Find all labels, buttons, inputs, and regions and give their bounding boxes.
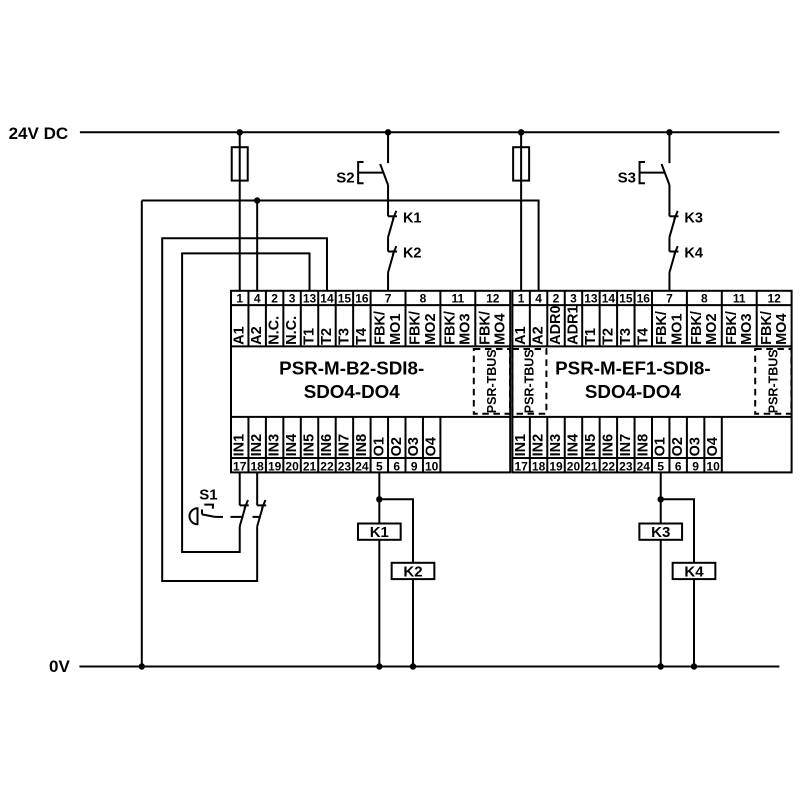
svg-text:17: 17 <box>514 459 528 473</box>
wire 0V power rail <box>79 666 779 668</box>
svg-text:ADR1: ADR1 <box>565 305 581 344</box>
wire 24V DC power rail <box>80 131 780 133</box>
wire 24V rail to U2 terminal 1 (A1) through fuse F2 <box>520 132 522 290</box>
wire 24V rail to switch S2 <box>387 132 389 163</box>
U2 top terminal cell separators <box>530 291 757 347</box>
svg-text:14: 14 <box>602 292 616 306</box>
svg-text:IN8: IN8 <box>354 434 370 457</box>
svg-text:IN1: IN1 <box>513 434 529 457</box>
svg-text:T2: T2 <box>600 328 616 345</box>
svg-text:ADR0: ADR0 <box>548 305 564 344</box>
svg-text:SDO4-DO4: SDO4-DO4 <box>585 381 682 402</box>
svg-text:FBK/: FBK/ <box>408 311 424 345</box>
svg-text:IN7: IN7 <box>336 434 352 457</box>
svg-text:A1: A1 <box>232 326 248 345</box>
fuse F2 <box>513 147 529 180</box>
svg-text:8: 8 <box>701 292 708 306</box>
svg-text:24: 24 <box>637 459 651 473</box>
U2 PSR-TBUS connector (left) <box>512 349 546 414</box>
svg-text:16: 16 <box>637 292 651 306</box>
svg-text:T2: T2 <box>319 328 335 345</box>
svg-text:K2: K2 <box>403 563 422 580</box>
pushbutton S3 (start) <box>618 162 670 187</box>
svg-text:O2: O2 <box>389 437 405 456</box>
U2 bottom terminal cell separators <box>530 417 722 473</box>
svg-text:MO4: MO4 <box>493 313 509 344</box>
svg-text:13: 13 <box>303 292 317 306</box>
wire 24V rail to switch S3 <box>668 132 670 163</box>
svg-text:K2: K2 <box>403 246 422 262</box>
wire S1 contact 2 to U1 terminal 14 (T2) <box>162 238 327 581</box>
wire coil K2 to 0V rail <box>412 579 414 666</box>
wire node-A horizontal run to module U2 terminal 4 (A2) <box>142 201 539 291</box>
svg-text:PSR-M-B2-SDI8-: PSR-M-B2-SDI8- <box>279 358 424 379</box>
svg-text:9: 9 <box>411 459 418 473</box>
svg-text:1: 1 <box>518 292 525 306</box>
svg-text:10: 10 <box>425 459 439 473</box>
junction 24V rail / S3 <box>666 129 672 135</box>
relay coil K1 <box>358 524 401 542</box>
wire S3 to contact K3 <box>668 185 670 216</box>
svg-text:IN3: IN3 <box>548 434 564 457</box>
svg-text:12: 12 <box>486 292 500 306</box>
U2 terminal label FBK/MO2 <box>689 311 720 345</box>
svg-text:O1: O1 <box>371 437 387 456</box>
svg-text:8: 8 <box>420 292 427 306</box>
svg-text:IN3: IN3 <box>267 434 283 457</box>
svg-text:FBK/: FBK/ <box>654 311 670 345</box>
svg-text:O2: O2 <box>670 437 686 456</box>
svg-text:3: 3 <box>570 292 577 306</box>
mechanical link S1 (dashed) <box>215 516 259 518</box>
U2 terminal label FBK/MO1 <box>654 311 685 345</box>
svg-text:4: 4 <box>535 292 542 306</box>
svg-text:0V: 0V <box>49 657 70 676</box>
svg-text:MO2: MO2 <box>704 313 720 344</box>
junction 0V rail / left drop <box>139 663 145 669</box>
svg-text:T3: T3 <box>336 328 352 345</box>
svg-text:7: 7 <box>385 292 392 306</box>
svg-text:20: 20 <box>285 459 299 473</box>
junction 24V rail / F1 <box>237 129 243 135</box>
svg-text:5: 5 <box>376 459 383 473</box>
junction K1/K2 branch <box>376 496 382 502</box>
U2 terminal label FBK/MO3 <box>724 311 755 345</box>
fuse F1 <box>232 147 248 180</box>
svg-text:K4: K4 <box>684 563 704 580</box>
svg-text:IN4: IN4 <box>565 434 581 457</box>
svg-text:18: 18 <box>250 459 264 473</box>
wire U1 terminal 18 (IN2) to S1 contact 2 <box>256 472 258 505</box>
svg-text:3: 3 <box>289 292 296 306</box>
svg-text:15: 15 <box>619 292 633 306</box>
wire S2 to contact K1 <box>387 185 389 216</box>
U2 type designation PSR-M-EF1-SDI8- SDO4-DO4 <box>555 358 710 402</box>
svg-text:T3: T3 <box>618 328 634 345</box>
svg-text:N.C.: N.C. <box>284 316 300 345</box>
wire contact K3 to contact K4 <box>668 237 670 251</box>
svg-text:5: 5 <box>657 459 664 473</box>
svg-text:MO3: MO3 <box>458 313 474 344</box>
wire coil K4 to 0V rail <box>693 579 695 666</box>
U1 terminal label FBK/MO1 <box>373 311 404 345</box>
svg-text:24: 24 <box>355 459 369 473</box>
svg-text:11: 11 <box>452 292 465 306</box>
svg-text:FBK/: FBK/ <box>477 311 493 345</box>
svg-text:S1: S1 <box>199 486 217 503</box>
svg-text:MO2: MO2 <box>423 313 439 344</box>
S1 NC contact 1 <box>240 500 249 526</box>
svg-text:FBK/: FBK/ <box>724 311 740 345</box>
svg-text:IN6: IN6 <box>319 434 335 457</box>
U1 terminal label FBK/MO2 <box>408 311 439 345</box>
junction 0V rail / K4 <box>691 663 697 669</box>
safety relay module U1: outer body <box>231 291 510 473</box>
svg-text:O4: O4 <box>705 437 721 456</box>
svg-text:FBK/: FBK/ <box>373 311 389 345</box>
svg-text:MO1: MO1 <box>388 313 404 344</box>
wire contact K2 to U1 terminal 7 (FBK/MO1) <box>387 273 389 291</box>
junction 0V rail / K2 <box>410 663 416 669</box>
wire U1 terminal 5 (O1) to 0V through coil K1 <box>378 472 380 666</box>
svg-text:O4: O4 <box>424 437 440 456</box>
svg-text:O1: O1 <box>653 437 669 456</box>
contact K1 (NC feedback) <box>388 211 421 238</box>
junction K3/K4 branch <box>658 496 664 502</box>
wire contact K4 to U2 terminal 7 (FBK/MO1) <box>668 273 670 291</box>
svg-text:N.C.: N.C. <box>267 316 283 345</box>
svg-text:K3: K3 <box>684 211 703 227</box>
junction 24V rail / S2 <box>385 129 391 135</box>
svg-text:4: 4 <box>254 292 261 306</box>
svg-text:12: 12 <box>767 292 781 306</box>
svg-text:K4: K4 <box>684 246 703 262</box>
svg-text:9: 9 <box>692 459 699 473</box>
svg-text:A2: A2 <box>249 326 265 345</box>
svg-text:10: 10 <box>706 459 720 473</box>
svg-text:21: 21 <box>584 459 598 473</box>
wire U1 terminal 4 (A2) drop <box>256 201 258 291</box>
svg-text:O3: O3 <box>688 437 704 456</box>
contact K3 (NC feedback) <box>669 211 702 238</box>
svg-text:PSR-TBUS: PSR-TBUS <box>766 349 780 413</box>
wire S1 contact 1 to U1 terminal 13 (T1) <box>182 253 309 552</box>
svg-text:22: 22 <box>320 459 334 473</box>
svg-text:13: 13 <box>584 292 598 306</box>
svg-text:FBK/: FBK/ <box>689 311 705 345</box>
U2 PSR-TBUS connector (right) <box>755 349 791 414</box>
junction 24V rail / F2 <box>518 129 524 135</box>
svg-text:2: 2 <box>553 292 560 306</box>
svg-text:22: 22 <box>602 459 616 473</box>
svg-text:16: 16 <box>355 292 369 306</box>
U1 PSR-TBUS connector (right) <box>474 349 510 414</box>
wire 0V left drop from node A to 0V rail <box>141 201 143 667</box>
svg-text:1: 1 <box>236 292 243 306</box>
svg-text:MO3: MO3 <box>739 313 755 344</box>
svg-text:IN2: IN2 <box>531 434 547 457</box>
svg-text:FBK/: FBK/ <box>759 311 775 345</box>
junction 0V rail / K1 <box>376 663 382 669</box>
pushbutton S2 (start) <box>336 162 388 187</box>
svg-text:MO1: MO1 <box>669 313 685 344</box>
svg-text:MO4: MO4 <box>774 313 790 344</box>
relay coil K4 <box>673 563 716 581</box>
svg-text:K1: K1 <box>403 211 422 227</box>
svg-text:14: 14 <box>320 292 334 306</box>
svg-text:6: 6 <box>675 459 682 473</box>
svg-text:23: 23 <box>619 459 633 473</box>
svg-text:SDO4-DO4: SDO4-DO4 <box>304 381 401 402</box>
svg-text:K3: K3 <box>651 524 670 541</box>
relay coil K3 <box>639 524 682 542</box>
wire branch to coil K4 <box>661 499 694 563</box>
emergency stop S1 mushroom actuator <box>190 486 218 524</box>
U1 bottom terminal cell separators <box>248 417 440 473</box>
svg-text:IN6: IN6 <box>600 434 616 457</box>
wire U1 terminal 17 (IN1) to S1 contact 1 <box>239 472 241 505</box>
relay coil K2 <box>392 563 435 581</box>
svg-text:6: 6 <box>393 459 400 473</box>
svg-text:PSR-TBUS: PSR-TBUS <box>522 349 536 413</box>
svg-text:11: 11 <box>733 292 746 306</box>
svg-text:FBK/: FBK/ <box>442 311 458 345</box>
svg-text:19: 19 <box>268 459 282 473</box>
svg-text:IN2: IN2 <box>249 434 265 457</box>
U2 terminal label FBK/MO4 <box>759 311 790 345</box>
wire 24V rail to U1 terminal 1 (A1) through fuse F1 <box>239 132 241 290</box>
svg-text:2: 2 <box>271 292 278 306</box>
svg-text:IN1: IN1 <box>232 434 248 457</box>
svg-text:T4: T4 <box>354 328 370 345</box>
svg-text:23: 23 <box>338 459 352 473</box>
svg-text:A1: A1 <box>513 326 529 345</box>
svg-text:IN5: IN5 <box>302 434 318 457</box>
svg-text:IN5: IN5 <box>583 434 599 457</box>
svg-text:20: 20 <box>567 459 581 473</box>
svg-text:PSR-TBUS: PSR-TBUS <box>485 349 499 413</box>
svg-text:21: 21 <box>303 459 317 473</box>
svg-text:K1: K1 <box>370 524 389 541</box>
svg-text:IN7: IN7 <box>618 434 634 457</box>
U1 terminal label FBK/MO3 <box>442 311 473 345</box>
U1 terminal label FBK/MO4 <box>477 311 508 345</box>
svg-text:T1: T1 <box>302 328 318 345</box>
safety relay module U2: outer body <box>512 291 791 473</box>
wire U2 terminal 5 (O1) to 0V through coil K3 <box>660 472 662 666</box>
svg-text:18: 18 <box>532 459 546 473</box>
svg-text:IN8: IN8 <box>635 434 651 457</box>
svg-text:S3: S3 <box>618 170 636 187</box>
svg-text:24V DC: 24V DC <box>9 124 69 143</box>
svg-text:15: 15 <box>338 292 352 306</box>
U1 type designation PSR-M-B2-SDI8- SDO4-DO4 <box>279 358 424 402</box>
U1 top terminal cell separators <box>248 291 475 347</box>
junction 0V rail / K3 <box>658 663 664 669</box>
svg-text:IN4: IN4 <box>284 434 300 457</box>
svg-text:17: 17 <box>233 459 247 473</box>
contact K4 (NC feedback) <box>669 246 702 273</box>
junction on A2 run at U1 terminal 4 <box>254 197 260 203</box>
wire contact K1 to contact K2 <box>387 237 389 251</box>
svg-text:PSR-M-EF1-SDI8-: PSR-M-EF1-SDI8- <box>555 358 710 379</box>
svg-text:T4: T4 <box>635 328 651 345</box>
wire branch to coil K2 <box>379 499 413 563</box>
S1 NC contact 2 <box>257 500 266 526</box>
svg-text:A2: A2 <box>531 326 547 345</box>
svg-text:T1: T1 <box>583 328 599 345</box>
svg-text:7: 7 <box>666 292 673 306</box>
contact K2 (NC feedback) <box>388 246 421 273</box>
svg-text:S2: S2 <box>336 170 354 187</box>
svg-text:O3: O3 <box>406 437 422 456</box>
svg-text:19: 19 <box>549 459 563 473</box>
